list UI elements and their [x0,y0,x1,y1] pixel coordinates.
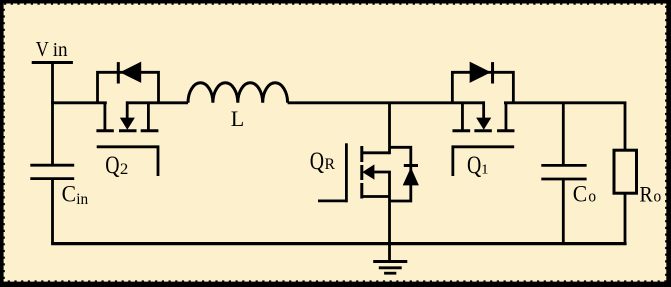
Q2 drain stub [104,103,107,131]
Vin label [36,37,68,61]
Q1 gate line [453,147,514,176]
svg-text:o: o [654,187,662,206]
svg-text:Q: Q [105,152,119,179]
svg-text:L: L [231,106,244,131]
QR source stub [362,195,390,198]
Q1 diode triangle [470,62,491,83]
svg-text:in: in [76,191,88,208]
Q2 body-diode loop [98,72,159,103]
wire QR source down to ground [388,172,391,262]
Q1 label [467,152,489,179]
wire Cin bottom to rail [51,179,54,244]
wire rail to Co top [562,103,565,166]
wire Co bottom to rail [562,179,565,244]
Q1 bulk arrow [482,101,485,119]
Q1 source stub [461,103,464,131]
svg-text:2: 2 [120,161,128,178]
wire Q1 right to output corner [504,101,626,104]
svg-text:o: o [588,186,596,205]
Vin supply terminal bar [32,61,73,64]
QR label [310,148,336,175]
svg-text:Q: Q [310,148,324,175]
Cin label [62,182,89,209]
Q1 channel dashes [452,129,470,132]
Q2 gate line [97,147,158,176]
svg-text:C: C [62,182,76,207]
transistor Q1 [452,62,514,176]
Q2 channel dashes [96,129,113,132]
Co label [573,182,596,207]
Q2 bulk arrow [126,101,129,119]
QR diode cathode bar [404,164,418,167]
Q1 diode cathode bar [491,62,494,83]
svg-text:R: R [325,156,336,173]
bottom rail wire [51,242,627,245]
QR gate line [345,143,348,202]
QR diode triangle [403,167,419,185]
capacitor Cin [30,165,74,178]
svg-text:1: 1 [481,163,488,178]
QR channel dashes [360,146,363,162]
wire Ro bottom to rail [624,193,627,244]
wire inductor to node and Q1 left [288,101,485,104]
capacitor Co [541,165,586,179]
Q1 drain stub [505,103,508,131]
svg-text:R: R [640,182,653,207]
Q2 source stub [147,103,150,131]
svg-text:in: in [53,39,68,61]
Q2 label [105,152,128,179]
transistor Q2 [96,62,158,176]
QR body-diode loop [390,147,411,201]
QR drain stub [362,151,390,154]
transistor QR [318,143,419,202]
wire node down to QR drain [388,103,391,154]
inductor L [188,83,288,103]
Q1 body-diode loop [452,72,513,103]
QR bulk arrow [374,171,391,174]
wire Q2 source to inductor [126,101,188,104]
Q2 diode triangle [120,62,141,83]
wire corner down to Ro top [624,103,627,151]
svg-text:V: V [36,37,49,61]
wire Vin branch to Q2 drain [51,101,107,104]
svg-text:Q: Q [467,152,481,179]
svg-text:C: C [573,182,587,207]
Q2 diode cathode bar [117,62,120,83]
Ro label [640,182,662,207]
ground [373,262,407,274]
wire Vin down to Cin [51,63,54,166]
resistor Ro [614,150,637,193]
